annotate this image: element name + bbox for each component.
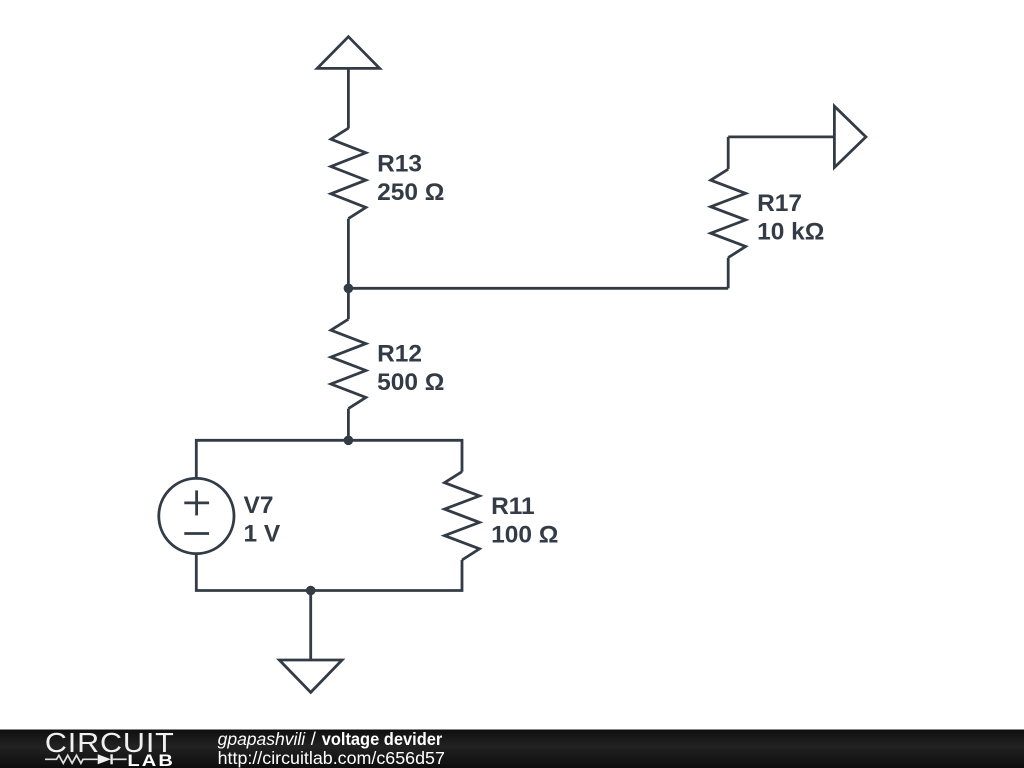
label R13 250 Ohm: [377, 150, 444, 206]
footer bar background: [0, 730, 1024, 768]
resistor R12: [331, 319, 366, 408]
label R12 500 Ohm: [377, 340, 444, 396]
node B junction dot: [344, 436, 354, 446]
wire ground stem: [309, 591, 312, 661]
resistor R11: [445, 472, 480, 560]
svg-text:500 Ω: 500 Ω: [377, 369, 444, 396]
ground symbol (down triangle): [279, 660, 342, 692]
svg-text:1 V: 1 V: [244, 521, 281, 548]
resistor R17: [711, 169, 746, 257]
CircuitLab logo resistor+diode waveform: [45, 754, 127, 764]
svg-text:voltage devider: voltage devider: [322, 729, 443, 749]
node C junction dot (ground node): [306, 586, 316, 596]
resistor R13: [331, 128, 366, 218]
svg-text:10 kΩ: 10 kΩ: [757, 219, 824, 246]
node A junction dot: [344, 284, 354, 294]
CircuitLab logo text CIRCUIT: [45, 727, 175, 759]
svg-text:R13: R13: [377, 150, 422, 177]
wire node A to R12: [347, 288, 350, 319]
CircuitLab logo text LAB: [127, 751, 175, 768]
svg-text:/: /: [311, 728, 317, 749]
svg-text:R12: R12: [377, 340, 422, 367]
label R11 100 Ohm: [491, 493, 558, 549]
label R17 10 kOhm: [757, 190, 824, 246]
output flag (right arrow): [834, 106, 866, 167]
power flag (VCC triangle): [317, 37, 380, 69]
wire top loop (node B to V7 and R11): [196, 440, 462, 478]
wire bottom loop (V7 to R11): [196, 554, 462, 591]
svg-text:V7: V7: [244, 492, 274, 519]
svg-text:http://circuitlab.com/c656d57: http://circuitlab.com/c656d57: [218, 748, 445, 768]
voltage source V7: [159, 478, 234, 553]
svg-text:100 Ω: 100 Ω: [491, 521, 558, 548]
wire R13 to node A: [347, 219, 350, 289]
wire R17 to output flag: [728, 135, 834, 138]
svg-text:250 Ω: 250 Ω: [377, 179, 444, 206]
label V7 1 V: [244, 492, 281, 548]
footer author and title line: [218, 728, 443, 749]
wire R17 bottom lead: [727, 258, 730, 289]
wire R12 to node B: [347, 409, 350, 441]
svg-text:R17: R17: [757, 190, 802, 217]
wire node A to R17 branch (horizontal): [348, 287, 728, 290]
svg-text:LAB: LAB: [127, 751, 175, 768]
footer URL line: [218, 748, 445, 768]
wire VCC flag to R13: [347, 68, 350, 128]
wire R17 top lead: [727, 137, 730, 169]
svg-text:R11: R11: [491, 493, 535, 520]
svg-text:gpapashvili: gpapashvili: [218, 729, 307, 749]
